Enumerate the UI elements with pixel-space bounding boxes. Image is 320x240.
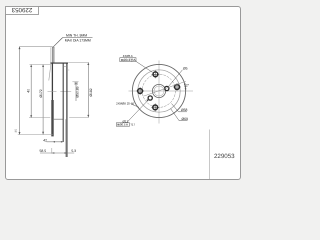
D4 extension bottom (69, 116, 89, 118)
D2 bottom arrow (42, 132, 44, 134)
dimension D3 small (72, 82, 79, 101)
label 2XM8 (116, 102, 139, 108)
svg-text:58.5: 58.5 (39, 149, 46, 153)
stub right line (53, 47, 55, 63)
D1 bottom arrow (30, 115, 32, 117)
svg-text:Ø182: Ø182 (89, 88, 93, 96)
title box top-left (6, 7, 39, 15)
svg-text:2XMØ8 25-60: 2XMØ8 25-60 (116, 102, 134, 106)
angle arrow top (184, 83, 186, 85)
hub inner line (65, 119, 67, 157)
LEFT VIEW : drum cross-section (18, 47, 71, 157)
lug hole bottom (151, 103, 159, 111)
hub bore chamfer tick (67, 69, 69, 71)
D1 top arrow (30, 65, 32, 67)
lug hole top (151, 70, 159, 78)
svg-text:Ø5: Ø5 (183, 66, 188, 70)
note leader diagonal (53, 38, 62, 47)
dim line 42 (47, 141, 64, 143)
svg-text:MIN TH. 9MM: MIN TH. 9MM (66, 34, 87, 38)
D3 extension (72, 81, 78, 83)
hub bore top edge (63, 66, 67, 68)
radial line through service hole (144, 81, 186, 96)
arrow at hub (65, 152, 67, 154)
D0 bottom arrow (19, 132, 21, 134)
arrow right (61, 141, 63, 143)
dimension 42 (43, 139, 63, 143)
angle dimension 12deg (184, 83, 190, 90)
frame box (116, 123, 129, 126)
svg-text:Ø172: Ø172 (39, 89, 43, 97)
label Ø69 (171, 109, 189, 122)
inner wall dark line (62, 63, 64, 142)
D0 top extension (19, 46, 52, 48)
open end step line (53, 118, 63, 120)
page background (0, 0, 246, 186)
leader to hole (127, 99, 149, 122)
drawing frame (6, 7, 241, 180)
bolt hole callout 4X (120, 54, 153, 72)
angle arrow bottom (185, 88, 187, 90)
dimension D2 Ø172.2 (39, 64, 44, 134)
svg-text:42: 42 (43, 139, 47, 143)
D3 line (75, 82, 77, 101)
center hole inner chamfer (154, 86, 164, 96)
horizontal centerline (129, 90, 194, 92)
D2 top arrow (42, 65, 44, 67)
title block divider (209, 130, 211, 180)
arrow left (53, 141, 55, 143)
arrow at wall (52, 152, 54, 154)
label Ø58 (172, 104, 188, 113)
stub outer-left line (50, 47, 52, 63)
D3 arrow (75, 82, 77, 84)
axis centerline left (48, 91, 57, 93)
D3 bracket right (77, 82, 79, 85)
Ø58 leader (172, 104, 188, 112)
top edge of drum (50, 62, 68, 64)
D3 bracket left (74, 82, 76, 85)
mid extension line left (step) (29, 117, 50, 119)
stub (hub pilot) left line (52, 47, 54, 63)
2XM8 leader (131, 104, 139, 107)
D0 top arrow (19, 47, 21, 49)
svg-text:Ø50.85: Ø50.85 (75, 86, 79, 97)
dimension D0 overall (14, 47, 52, 135)
svg-text:229053: 229053 (214, 153, 235, 160)
outer circle (132, 64, 185, 117)
D0 line (19, 47, 21, 135)
bottom dim line (40, 152, 74, 154)
svg-text:35: 35 (14, 129, 18, 133)
svg-text:40: 40 (27, 89, 31, 93)
center hole (152, 84, 165, 97)
svg-text:229053: 229053 (11, 6, 32, 13)
dimension D4 right (68, 63, 93, 118)
rim taper line (49, 64, 51, 81)
wall extension (51, 148, 53, 154)
D1 line (30, 64, 32, 117)
lug hole right (173, 83, 181, 91)
label Ø5 (168, 66, 188, 87)
lug hole left (136, 87, 144, 95)
top extension line left (30, 64, 51, 66)
svg-text:⊕Ø0.3ⓂA: ⊕Ø0.3ⓂA (121, 58, 137, 62)
svg-text:5.3: 5.3 (71, 149, 76, 153)
callout leader (136, 61, 153, 72)
bolt circle (dash-dot) (142, 74, 175, 107)
D4 line (87, 63, 89, 118)
svg-text:⊕Ø0.5 A: ⊕Ø0.5 A (117, 123, 128, 127)
bottom extension line (to D0) (18, 134, 53, 136)
vertical centerline (158, 61, 160, 124)
feature control frame (120, 58, 136, 62)
bottom dimension 58.5 / 5.3 (39, 148, 76, 154)
axis centerline right (60, 91, 71, 93)
left wall lower thicker (51, 100, 53, 136)
D4 bottom arrow (87, 115, 89, 117)
label Ø12 cluster (116, 99, 149, 127)
stub top (52, 46, 54, 48)
svg-text:T17: T17 (130, 123, 135, 127)
note leader shelf (63, 37, 93, 39)
dimension D1 Ø172 (27, 64, 33, 117)
hub outer dark line (66, 63, 68, 157)
service hole right (165, 86, 169, 90)
svg-text:MAX DIA 173MM: MAX DIA 173MM (65, 39, 91, 43)
angle arc (185, 83, 186, 90)
left wall (dark) (51, 63, 53, 100)
Ø5 leader (168, 70, 183, 87)
leader arrowhead (146, 99, 149, 102)
service hole left (148, 96, 152, 100)
Ø69 leader (171, 109, 188, 121)
D4 top arrow (87, 63, 89, 65)
RIGHT VIEW : flange face (129, 61, 194, 124)
middle circle (138, 70, 180, 112)
D2 line (42, 64, 44, 134)
D4 extension top (68, 62, 89, 64)
